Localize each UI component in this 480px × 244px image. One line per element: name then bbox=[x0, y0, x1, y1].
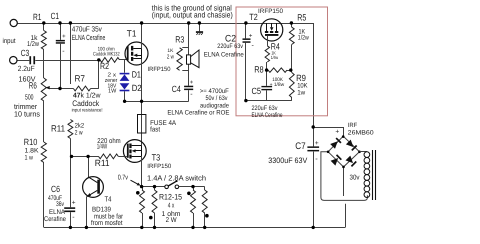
svg-text:C5: C5 bbox=[252, 86, 262, 96]
svg-text:R1: R1 bbox=[33, 12, 42, 22]
svg-text:ELNA Cerafine: ELNA Cerafine bbox=[252, 112, 283, 119]
svg-text:4 x: 4 x bbox=[168, 202, 175, 209]
svg-text:1.8K: 1.8K bbox=[25, 148, 40, 155]
svg-text:D1: D1 bbox=[132, 70, 141, 80]
svg-text:1/4W: 1/4W bbox=[97, 143, 108, 151]
svg-text:ELNA: ELNA bbox=[49, 209, 65, 216]
svg-text:R2: R2 bbox=[100, 61, 109, 71]
svg-text:ELNA Cerafine: ELNA Cerafine bbox=[204, 52, 244, 59]
svg-text:220uF 63v: 220uF 63v bbox=[252, 105, 279, 112]
svg-text:1/2w: 1/2w bbox=[298, 35, 309, 42]
svg-text:Caddok MK132: Caddok MK132 bbox=[93, 51, 120, 57]
svg-text:>= 4700uF: >= 4700uF bbox=[200, 88, 229, 95]
svg-text:Cerafine: Cerafine bbox=[44, 216, 66, 223]
svg-text:3300uF 63V: 3300uF 63V bbox=[268, 156, 308, 165]
svg-text:C6: C6 bbox=[51, 184, 60, 194]
svg-text:1/2w: 1/2w bbox=[27, 40, 40, 48]
svg-text:ELNA Cerafine or ROE: ELNA Cerafine or ROE bbox=[167, 109, 230, 116]
svg-text:R11: R11 bbox=[95, 158, 110, 168]
svg-text:+: + bbox=[62, 34, 66, 40]
svg-text:R10: R10 bbox=[24, 137, 38, 147]
svg-text:from mosfet: from mosfet bbox=[91, 219, 123, 227]
svg-text:1K: 1K bbox=[167, 48, 174, 54]
svg-text:C1: C1 bbox=[51, 11, 60, 21]
svg-text:Caddock: Caddock bbox=[72, 99, 100, 108]
svg-text:30v: 30v bbox=[350, 175, 360, 182]
svg-text:50v / 63v: 50v / 63v bbox=[206, 95, 229, 102]
svg-text:500: 500 bbox=[25, 92, 34, 101]
svg-text:R12-15: R12-15 bbox=[159, 193, 182, 202]
svg-text:+: + bbox=[335, 128, 339, 135]
svg-text:IRFP150: IRFP150 bbox=[258, 8, 283, 15]
svg-text:audiograde: audiograde bbox=[200, 102, 229, 109]
svg-text:T1: T1 bbox=[127, 29, 137, 39]
svg-text:+: + bbox=[315, 140, 319, 147]
svg-text:2 w: 2 w bbox=[75, 129, 83, 136]
svg-text:T3: T3 bbox=[152, 153, 161, 163]
svg-text:C3: C3 bbox=[21, 48, 30, 58]
svg-text:D2: D2 bbox=[132, 83, 142, 93]
svg-text:IRFP150: IRFP150 bbox=[148, 66, 172, 73]
svg-text:+: + bbox=[249, 33, 253, 39]
svg-text:R7: R7 bbox=[75, 73, 86, 83]
svg-text:C4: C4 bbox=[172, 84, 181, 94]
svg-text:R8: R8 bbox=[254, 65, 264, 75]
svg-text:T2: T2 bbox=[249, 12, 257, 22]
svg-text:R3: R3 bbox=[175, 34, 184, 44]
svg-text:+: + bbox=[190, 80, 194, 86]
svg-text:1w: 1w bbox=[297, 90, 305, 97]
svg-text:input: input bbox=[3, 37, 16, 45]
svg-text:input resistance!: input resistance! bbox=[72, 107, 103, 113]
svg-text:fast: fast bbox=[150, 125, 160, 133]
svg-text:0.7v: 0.7v bbox=[118, 175, 129, 182]
svg-text:ELNA Cerafine: ELNA Cerafine bbox=[72, 33, 106, 42]
svg-text:2 W: 2 W bbox=[166, 217, 177, 224]
svg-text:R9: R9 bbox=[296, 73, 306, 83]
svg-text:36v: 36v bbox=[56, 201, 64, 208]
svg-text:T4: T4 bbox=[105, 195, 112, 204]
svg-text:R11: R11 bbox=[51, 124, 65, 134]
svg-text:1/4w: 1/4w bbox=[271, 55, 279, 60]
svg-text:+: + bbox=[72, 199, 76, 206]
svg-text:10 turns: 10 turns bbox=[14, 109, 40, 118]
svg-text:220uF 63v: 220uF 63v bbox=[217, 43, 243, 50]
svg-text:1W: 1W bbox=[108, 89, 117, 95]
svg-text:1 w: 1 w bbox=[25, 155, 34, 162]
svg-text:26MB60: 26MB60 bbox=[348, 129, 375, 136]
svg-text:+ 1/8w: + 1/8w bbox=[270, 82, 285, 88]
svg-text:470uF 35v: 470uF 35v bbox=[72, 24, 102, 33]
svg-text:1.4A / 2.8A switch: 1.4A / 2.8A switch bbox=[147, 174, 206, 183]
svg-text:R6: R6 bbox=[29, 81, 37, 91]
svg-text:C7: C7 bbox=[295, 141, 305, 152]
svg-text:R5: R5 bbox=[297, 13, 306, 23]
svg-text:2 w: 2 w bbox=[167, 54, 174, 61]
svg-text:IRF: IRF bbox=[348, 122, 358, 129]
svg-text:2.2uF: 2.2uF bbox=[18, 64, 35, 73]
svg-text:(input, output and chassie): (input, output and chassie) bbox=[152, 11, 233, 20]
svg-text:IRFP150: IRFP150 bbox=[147, 163, 172, 170]
